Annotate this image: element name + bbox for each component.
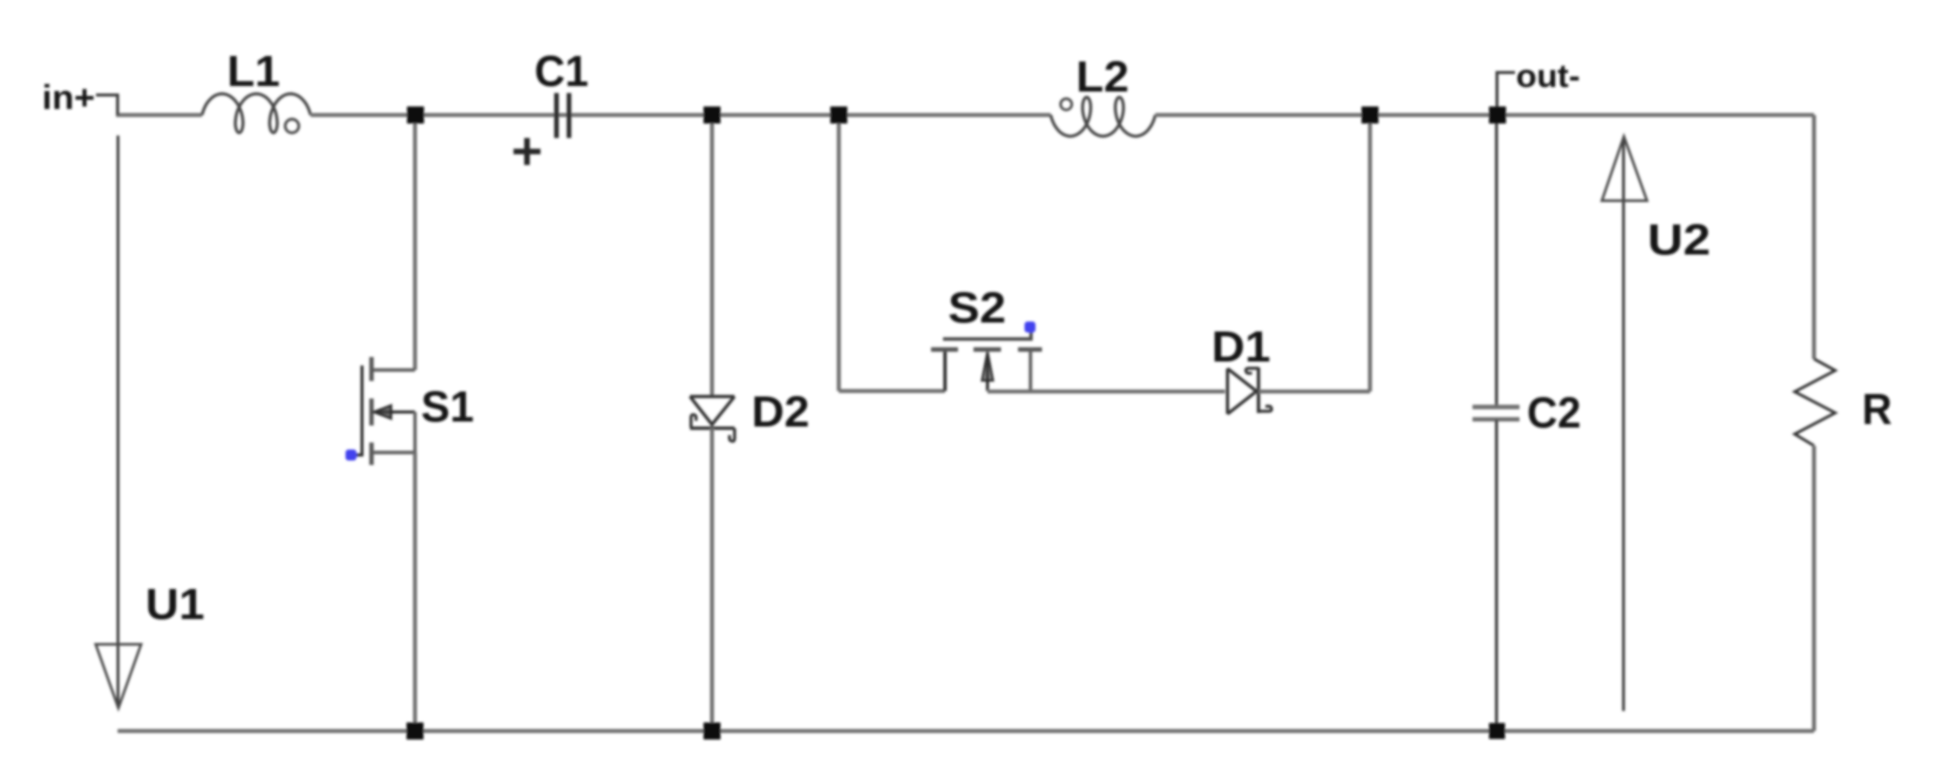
resistor R zigzag	[1795, 359, 1836, 446]
capacitor C1 plate left	[554, 93, 559, 138]
diode D1 triangle	[1228, 369, 1257, 415]
L1 phase dot circle	[285, 119, 299, 133]
L2 phase dot circle	[1061, 99, 1072, 110]
svg-text:C1: C1	[535, 47, 589, 96]
node top A (S1)	[407, 107, 424, 124]
transistor S2 source lead	[1029, 349, 1032, 391]
wire bottom rail	[118, 729, 1814, 733]
diode D2 triangle	[690, 397, 735, 425]
node bottom C2	[1489, 723, 1505, 739]
wire D2 branch upper	[710, 115, 714, 396]
voltage arrow U1 head	[96, 644, 141, 708]
transistor S1 source lead	[372, 451, 415, 454]
wire D2 branch lower	[710, 428, 714, 731]
wire C2 branch upper	[1495, 115, 1498, 406]
wire L2 to top right corner	[1155, 113, 1814, 117]
wire S2 to D1	[988, 390, 1226, 394]
svg-text:D2: D2	[752, 388, 810, 437]
out- terminal stub	[1497, 73, 1515, 116]
C1 polarity plus	[514, 138, 541, 165]
node top D (D1 branch)	[1362, 107, 1379, 124]
node bottom S1	[407, 723, 424, 740]
inductor L2	[1051, 97, 1156, 136]
wire to S2 drain	[839, 389, 945, 393]
transistor S1 body arrow	[374, 411, 415, 414]
wire S1 branch lower	[413, 453, 417, 732]
wire D1 to right branch corner	[1259, 390, 1371, 394]
node top E (out/C2)	[1489, 107, 1506, 124]
inductor L1	[202, 94, 311, 133]
svg-text:L2: L2	[1076, 53, 1129, 102]
capacitor C2 plate bottom	[1473, 417, 1520, 421]
transistor S1 gate line	[352, 366, 362, 456]
voltage arrow U1 line	[117, 136, 120, 707]
wire right branch up to node	[1368, 115, 1372, 392]
voltage arrow U2 line	[1622, 138, 1625, 711]
wire right edge upper	[1812, 115, 1816, 359]
wire top left from in+ corner to L1	[116, 113, 202, 117]
in+ terminal stub	[96, 95, 118, 115]
transistor S2 gate bar	[943, 330, 1031, 339]
diode D2 schottky right hook	[729, 428, 734, 441]
transistor S1 channel bars	[369, 357, 373, 465]
wire C1 to L2	[572, 113, 1051, 117]
capacitor C1 plate right	[567, 93, 572, 138]
node top B (D2)	[704, 107, 721, 124]
svg-text:C2: C2	[1527, 389, 1581, 438]
wire right edge lower	[1812, 446, 1816, 731]
svg-text:S1: S1	[421, 383, 474, 432]
transistor S1 gate blue dot	[346, 450, 357, 461]
wire C2 branch lower	[1495, 420, 1498, 731]
svg-text:S2: S2	[948, 284, 1006, 333]
diode D2 cathode bar	[690, 427, 735, 430]
svg-text:L1: L1	[227, 47, 280, 96]
node top C (S2 branch)	[830, 107, 847, 124]
diode D1 schottky top hook	[1246, 368, 1259, 373]
diode D1 cathode bar	[1257, 368, 1260, 414]
voltage arrow U2 head	[1602, 137, 1647, 201]
wire under C1 plates	[554, 113, 572, 117]
svg-text:D1: D1	[1212, 323, 1271, 372]
capacitor C2 plate top	[1473, 405, 1520, 409]
wire L1 to C1	[311, 113, 554, 117]
svg-text:U1: U1	[146, 580, 205, 629]
svg-text:U2: U2	[1648, 216, 1711, 265]
wire S2 branch down from node	[837, 115, 841, 391]
transistor S2 body arrow	[986, 353, 989, 391]
svg-text:in+: in+	[42, 79, 95, 117]
wire S1 branch upper	[413, 115, 417, 370]
diode D2 schottky left hook	[691, 415, 696, 428]
transistor S2 drain lead	[943, 349, 946, 391]
node bottom D2	[704, 723, 721, 740]
svg-text:R: R	[1862, 385, 1892, 434]
transistor S1 body-source connector	[413, 412, 416, 453]
transistor S1 drain lead	[372, 368, 415, 371]
svg-text:out-: out-	[1516, 58, 1580, 94]
diode D1 schottky bottom hook	[1259, 406, 1272, 411]
transistor S2 gate blue dot	[1025, 322, 1036, 333]
transistor S2 channel bars	[931, 347, 1042, 351]
